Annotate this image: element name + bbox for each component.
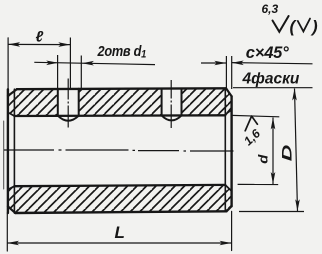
roughness 1,6 mark bbox=[245, 116, 257, 131]
wire: top outer edge bbox=[17, 87, 226, 90]
svg-text:): ) bbox=[310, 17, 318, 36]
dimension L bbox=[7, 242, 232, 244]
chamfer top-left bbox=[8, 89, 17, 96]
svg-text:c×45°: c×45° bbox=[246, 44, 289, 62]
wire: bore top line bbox=[14, 114, 225, 117]
wire: bore bottom line bbox=[14, 185, 225, 186]
hatched section: bottom wall bbox=[8, 185, 232, 213]
wire: right face extension down (L dim) bbox=[231, 211, 233, 250]
chamfer bottom-left bbox=[8, 206, 15, 213]
svg-text:ℓ: ℓ bbox=[36, 29, 44, 46]
hole 2 left edge bbox=[161, 89, 163, 116]
chamfer edge right vertical bbox=[224, 88, 226, 211]
chamfer top-right bbox=[226, 88, 232, 96]
hatched section: top wall bbox=[8, 88, 232, 116]
hole 1 bottom arc bbox=[58, 116, 79, 121]
bore chamfer bottom-right bbox=[225, 185, 231, 191]
hole 1 left edge bbox=[57, 89, 59, 116]
centerlines bbox=[4, 79, 234, 152]
wire: left face extension down (L dim) bbox=[6, 213, 8, 251]
dimension l bbox=[8, 38, 70, 89]
svg-text:4фаски: 4фаски bbox=[242, 71, 300, 88]
dimension d bbox=[232, 115, 279, 184]
wire: left face extension up (l dim) bbox=[7, 38, 9, 90]
svg-text:D: D bbox=[279, 144, 294, 161]
chamfer edge left vertical bbox=[13, 89, 15, 213]
dimension D bbox=[239, 89, 304, 212]
axis centerline bbox=[4, 150, 234, 151]
hole 1 centerline bbox=[67, 79, 69, 128]
wire: left face outline bbox=[7, 89, 9, 213]
svg-text:L: L bbox=[115, 223, 125, 242]
hole 1 right edge bbox=[78, 89, 80, 116]
hole 2 right edge bbox=[181, 89, 183, 116]
svg-text:2оmв d1: 2оmв d1 bbox=[97, 42, 147, 61]
bore chamfer top-left bbox=[8, 112, 14, 116]
wire: right face outline bbox=[230, 96, 232, 206]
hole 2 bottom arc bbox=[162, 115, 182, 120]
hole 2 centerline bbox=[170, 80, 172, 128]
dimension c x 45 bbox=[201, 56, 313, 89]
svg-text:d: d bbox=[255, 154, 270, 164]
bore chamfer bottom-left bbox=[8, 186, 14, 189]
wire: bottom outer edge bbox=[15, 211, 226, 213]
bore chamfer top-right bbox=[225, 109, 231, 116]
svg-text:6,3: 6,3 bbox=[262, 2, 279, 16]
chamfer bottom-right bbox=[227, 206, 232, 211]
wire: stray scan line left bbox=[3, 121, 5, 189]
dimension 2otv d1 bbox=[34, 55, 155, 89]
